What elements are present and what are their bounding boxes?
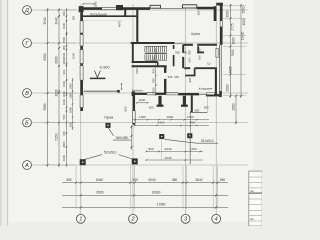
svg-text:2060: 2060 — [232, 103, 236, 110]
svg-text:300: 300 — [194, 108, 199, 112]
porch stub wall right x191.8 — [191, 95, 193, 112]
svg-text:4825: 4825 — [229, 66, 233, 73]
axis bubble Б — [23, 118, 32, 127]
svg-text:11420: 11420 — [241, 31, 245, 40]
svg-text:4040: 4040 — [165, 156, 172, 160]
pier stem 2 footing cap — [181, 105, 188, 107]
garage right wall window — [132, 111, 135, 123]
svg-text:1000: 1000 — [231, 37, 235, 44]
svg-text:1000: 1000 — [68, 83, 72, 89]
top wall solid segment 3 — [197, 7, 215, 10]
svg-text:6040: 6040 — [148, 178, 155, 182]
window left wall y20.8-33 — [80, 21, 83, 33]
column 510x510 axis A2 — [132, 158, 138, 164]
svg-text:2775: 2775 — [231, 23, 235, 30]
svg-text:945: 945 — [168, 75, 173, 79]
page edge shadow left — [0, 0, 2, 226]
kladovaya closet — [194, 68, 196, 75]
bottom dim row2 — [62, 194, 228, 196]
window left wall y65.5-80.2 — [80, 66, 83, 81]
svg-text:380: 380 — [72, 15, 76, 20]
svg-text:980: 980 — [188, 77, 192, 82]
pier stem 1 footing cap — [157, 105, 164, 107]
svg-text:500: 500 — [149, 106, 154, 110]
top-left corner block — [79, 6, 84, 12]
svg-text:3640: 3640 — [195, 178, 202, 182]
svg-text:Кабинет: Кабинет — [132, 89, 144, 93]
stair bottom wall — [132, 61, 158, 63]
top wall solid segment 2 — [123, 7, 150, 10]
svg-text:300: 300 — [174, 75, 179, 79]
inner-most mini chain texts x72.5 — [72, 78, 74, 130]
axis bubble Д — [23, 6, 32, 15]
axis line Г — [32, 42, 249, 44]
axis line Д — [32, 9, 249, 11]
svg-text:1890: 1890 — [68, 106, 72, 113]
svg-text:1000: 1000 — [62, 154, 66, 161]
axis bubble 2 — [129, 214, 138, 223]
stair outline — [145, 45, 167, 47]
svg-text:960: 960 — [62, 11, 66, 16]
door sill to porch — [199, 94, 206, 96]
axis line А — [32, 164, 249, 166]
door sill line corridor top — [175, 43, 184, 45]
svg-text:500: 500 — [62, 114, 66, 119]
window top wall W1 — [102, 6, 116, 8]
svg-text:500: 500 — [204, 106, 209, 110]
right exterior wall y26.5-43.5 — [220, 27, 223, 45]
left dim chain mid x59 — [58, 8, 60, 167]
kitchen/stair top wall y43 — [131, 42, 175, 44]
svg-text:550: 550 — [66, 178, 72, 182]
svg-text:900: 900 — [187, 50, 191, 55]
svg-text:900: 900 — [175, 51, 180, 55]
vertical mini dim x131.5 terrace — [131, 125, 133, 150]
top-right corner cap — [216, 3, 223, 6]
svg-text:6590: 6590 — [96, 191, 103, 195]
svg-text:2580: 2580 — [62, 36, 66, 43]
svg-text:900: 900 — [152, 68, 156, 73]
axis bubble 4 — [212, 214, 221, 223]
svg-text:550: 550 — [191, 147, 196, 151]
bottom dim row1 — [62, 182, 228, 184]
svg-text:5150: 5150 — [55, 133, 59, 140]
garage right wall x133.8 — [133, 92, 136, 111]
bottom wall segment B — [155, 93, 166, 95]
svg-text:3580: 3580 — [43, 103, 47, 110]
svg-text:380: 380 — [132, 178, 138, 182]
staircase hatch — [145, 46, 166, 60]
top wall solid segment 1 — [83, 7, 102, 10]
svg-text:3940: 3940 — [55, 17, 59, 24]
svg-text:4870: 4870 — [118, 20, 122, 27]
terrace column C1 — [159, 134, 164, 139]
svg-text:380: 380 — [62, 45, 66, 50]
svg-text:550: 550 — [220, 178, 226, 182]
door dim line x155.8 — [155, 48, 157, 96]
kotelnaya bottom wall — [83, 15, 138, 17]
dim 2060 right lower — [235, 96, 237, 124]
svg-text:17580: 17580 — [157, 203, 166, 207]
svg-text:900: 900 — [62, 69, 66, 74]
axis line 2 — [132, 4, 134, 214]
garage door line y91.2 — [84, 90, 119, 92]
svg-text:2000: 2000 — [225, 10, 229, 17]
axis extension lines left — [44, 9, 76, 11]
corner column 510x510 axis A1 — [80, 159, 86, 165]
kabinet right wall x165.2 — [164, 66, 166, 73]
wall stem x215 down — [214, 6, 217, 21]
svg-text:1000: 1000 — [72, 53, 76, 59]
axis bubble Г — [23, 39, 32, 48]
window left wall y95-107.5 — [80, 95, 83, 108]
window bottom B — [166, 92, 178, 94]
svg-text:510х510: 510х510 — [201, 139, 214, 143]
svg-text:10690: 10690 — [152, 191, 161, 195]
svg-text:Д: Д — [24, 8, 29, 14]
title block table fragment — [249, 171, 262, 226]
svg-text:2000: 2000 — [242, 6, 246, 13]
svg-text:3940: 3940 — [43, 17, 47, 24]
white slot in segment D — [207, 93, 215, 95]
svg-text:600: 600 — [187, 57, 191, 62]
left dim chain outer x47.5 — [47, 8, 49, 167]
bottom extension lines — [75, 166, 77, 209]
kitchen bottom wall right part y44.8 — [183, 44, 193, 46]
svg-text:510х510: 510х510 — [104, 150, 117, 154]
inner right wall window slot y48-57 — [216, 48, 218, 57]
left exterior wall with windows — [80, 12, 83, 20]
svg-text:1000: 1000 — [62, 22, 66, 29]
right exterior wall lower thin double — [219, 45, 221, 97]
small dim line at pier — [121, 83, 123, 90]
svg-text:1000: 1000 — [62, 98, 66, 105]
interior wall x137.3 — [136, 9, 138, 44]
bottom wall segment A — [132, 93, 147, 95]
svg-text:1300: 1300 — [139, 115, 146, 119]
right wall window y21-26.5 — [219, 21, 221, 27]
svg-text:В: В — [25, 91, 29, 97]
svg-text:1000: 1000 — [62, 80, 66, 87]
right dim chain inner x230.5 — [230, 4, 232, 98]
svg-text:1300: 1300 — [187, 115, 194, 119]
right exterior wall upper — [220, 4, 223, 22]
svg-text:1: 1 — [79, 217, 82, 223]
inner right wall x215.9 — [215, 68, 217, 95]
bottom wall segment D — [206, 94, 222, 96]
svg-text:900: 900 — [198, 48, 202, 53]
axis line В — [32, 92, 249, 94]
small dim above top-left wall — [83, 3, 94, 5]
svg-text:3080: 3080 — [62, 90, 66, 97]
svg-text:380х380: 380х380 — [116, 136, 129, 140]
pier at garage door — [117, 90, 120, 93]
svg-text:2940: 2940 — [165, 147, 172, 151]
left dim chain inner x66.5 — [66, 8, 68, 167]
right extension lines — [223, 5, 246, 7]
svg-text:380: 380 — [172, 178, 178, 182]
svg-text:Котельная: Котельная — [90, 12, 107, 16]
bottom dim row3 17580 — [62, 206, 228, 208]
svg-text:А: А — [24, 163, 29, 169]
faint floor line in kotelnaya — [83, 19, 123, 21]
hollow lintel right of entry — [182, 5, 196, 8]
svg-text:1000: 1000 — [94, 1, 98, 7]
right dim chain outer x241 — [240, 4, 242, 98]
svg-text:900: 900 — [152, 56, 156, 61]
wall x183.2 — [182, 45, 184, 53]
svg-text:6300: 6300 — [43, 53, 47, 60]
svg-text:1000: 1000 — [62, 58, 66, 65]
svg-text:7000: 7000 — [231, 49, 235, 56]
stub below stair wall — [157, 62, 159, 66]
svg-text:2110: 2110 — [135, 68, 139, 74]
stair right wall — [173, 45, 175, 49]
paper background — [0, 0, 262, 226]
closet walls near kitchen — [197, 46, 199, 53]
kabinet top wall y66.2 — [132, 65, 167, 67]
garage column 380x380 — [106, 123, 111, 128]
window left wall y49.5-63.5 — [80, 50, 83, 64]
pier stem 2 — [183, 96, 186, 105]
svg-text:4: 4 — [215, 217, 218, 223]
entry opening sill line — [161, 8, 183, 10]
svg-text:550: 550 — [123, 106, 127, 111]
svg-text:500: 500 — [148, 147, 153, 151]
axis bubble В — [23, 89, 32, 98]
svg-text:Кладовая: Кладовая — [199, 87, 213, 91]
svg-text:2130: 2130 — [62, 52, 66, 59]
bottom wall segment C — [178, 93, 199, 95]
svg-text:300: 300 — [68, 122, 72, 127]
svg-text:550: 550 — [197, 10, 201, 15]
pier on top wall — [116, 5, 123, 10]
svg-text:6000: 6000 — [55, 56, 59, 63]
axis line 3 — [185, 4, 187, 214]
svg-text:1000: 1000 — [242, 18, 246, 25]
terrace column C2 — [187, 133, 192, 138]
stair mid line — [145, 52, 167, 54]
svg-text:Гараж: Гараж — [104, 115, 114, 119]
hollow pier left of entry — [150, 5, 161, 8]
porch thin lines right — [192, 112, 208, 114]
svg-text:-0.800: -0.800 — [99, 66, 109, 70]
axis bubble 3 — [181, 214, 190, 223]
axis bubble 1 — [76, 214, 85, 223]
vertical extension from terrace columns — [161, 139, 163, 161]
label 380x380 with leader — [109, 128, 114, 136]
axis line Б — [32, 122, 249, 124]
svg-text:600: 600 — [198, 55, 202, 60]
svg-text:4800: 4800 — [62, 141, 66, 148]
left wall of bottom zone x132.8 — [132, 92, 134, 96]
svg-text:2000: 2000 — [139, 98, 146, 102]
svg-text:6040: 6040 — [96, 178, 103, 182]
svg-text:Б: Б — [25, 120, 29, 126]
window bottom A — [147, 92, 155, 94]
axis line 4 — [215, 4, 217, 214]
stair left wall — [132, 43, 134, 63]
svg-text:950: 950 — [152, 78, 156, 83]
pier stem 1 — [158, 96, 161, 105]
axis line 1 — [80, 4, 82, 214]
su bottom wall y68.2 — [184, 67, 190, 69]
svg-text:2000: 2000 — [225, 84, 229, 91]
axis bubble А — [23, 161, 32, 170]
svg-text:300: 300 — [62, 131, 66, 136]
svg-text:Кухня: Кухня — [191, 32, 200, 36]
svg-text:3420: 3420 — [158, 120, 165, 124]
kotelnaya right wall — [124, 9, 126, 17]
porch dim line x190.3 vertical — [189, 111, 191, 163]
svg-text:Су: Су — [207, 61, 211, 65]
window left wall y34.5-46 — [80, 35, 83, 47]
svg-text:1600: 1600 — [166, 115, 173, 119]
